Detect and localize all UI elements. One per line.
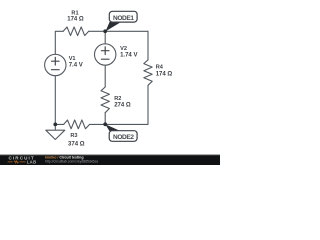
resistor R3 body [64, 120, 90, 129]
svg-text:http://circuitlab.com/c/eyd885: http://circuitlab.com/c/eyd885dx6sa [45, 160, 98, 164]
svg-text:V1: V1 [69, 56, 76, 62]
junction dot at ground [53, 123, 57, 127]
footer bar [0, 155, 220, 165]
svg-text:R4: R4 [156, 65, 164, 71]
wire R1 to NODE1 junction to top-right corner [89, 30, 148, 32]
wire NODE1 junction down to V2 [104, 31, 106, 44]
node junction dot NODE1 [103, 29, 107, 33]
svg-text:NODE1: NODE1 [113, 15, 134, 22]
wire V2 to R2 [104, 65, 106, 87]
resistor R2 body [101, 87, 109, 113]
svg-text:374 Ω: 374 Ω [68, 141, 85, 147]
wire top-left segment (corner to R1) [55, 31, 63, 54]
svg-text:7.4 V: 7.4 V [69, 63, 83, 69]
svg-text:NODE2: NODE2 [113, 134, 134, 141]
svg-text:R1: R1 [71, 10, 78, 16]
wire bottom (ground junction to R3, R3 to NODE2, NODE2 to corner) [55, 123, 148, 125]
svg-text:174 Ω: 174 Ω [156, 71, 173, 77]
svg-text:R3: R3 [70, 133, 77, 139]
logo wire + resistor glyph [8, 161, 26, 163]
svg-text:274 Ω: 274 Ω [114, 103, 131, 109]
voltage source V1 circle [45, 54, 66, 75]
svg-text:LAB: LAB [27, 159, 37, 164]
svg-text:174 Ω: 174 Ω [67, 17, 84, 23]
wire R2 to NODE2 junction [104, 113, 106, 125]
V2 plus sign [101, 47, 109, 55]
node NODE1 callout box [109, 11, 137, 22]
wire right rail (corner to R4, R4 to bottom corner) [147, 31, 149, 124]
callout tail NODE1 [106, 22, 121, 32]
wire V1 to ground junction [54, 76, 56, 125]
callout tail NODE2 [105, 124, 120, 131]
V2 minus sign [101, 58, 109, 60]
ground symbol [46, 124, 65, 139]
resistor R4 body [144, 60, 152, 85]
svg-text:1.74 V: 1.74 V [120, 52, 137, 58]
node junction dot NODE2 [103, 122, 107, 126]
V1 minus sign [52, 69, 60, 71]
node NODE2 callout box [109, 131, 137, 142]
resistor R1 body [63, 27, 88, 36]
voltage source V2 circle [95, 44, 116, 65]
V1 plus sign [52, 57, 60, 65]
svg-text:V2: V2 [120, 46, 127, 52]
svg-text:R2: R2 [114, 96, 121, 102]
